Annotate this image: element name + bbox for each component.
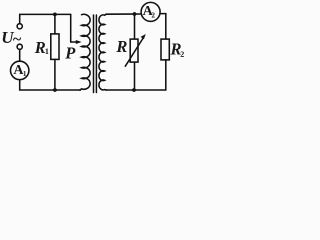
svg-text:2: 2 xyxy=(151,12,155,20)
svg-text:R: R xyxy=(115,37,127,56)
ammeter A2 xyxy=(141,2,160,21)
resistor R2 xyxy=(161,39,169,60)
ammeter A1 xyxy=(11,61,29,79)
svg-text:1: 1 xyxy=(45,47,49,56)
node junction R1 top xyxy=(53,13,57,17)
wire A2 to right corner xyxy=(160,14,166,39)
node junction rheostat bottom xyxy=(132,88,136,92)
terminal bottom-left xyxy=(17,44,22,49)
wire top-left horizontal xyxy=(20,14,71,23)
node junction R1 bottom xyxy=(53,88,57,92)
secondary coil xyxy=(99,14,106,90)
wire R2 bottom xyxy=(165,60,167,90)
wire R1 branch upper xyxy=(54,14,56,34)
terminal top-left xyxy=(17,24,22,29)
svg-text:P: P xyxy=(64,44,76,63)
wire tap drop xyxy=(70,14,72,42)
transformer core line 2 xyxy=(95,15,97,93)
svg-text:2: 2 xyxy=(180,50,184,59)
wire rheostat branch lower xyxy=(134,62,136,90)
svg-text:~: ~ xyxy=(13,31,22,48)
rheostat arrow xyxy=(125,38,143,67)
wire A1 to bottom rail xyxy=(20,80,81,90)
tap arrow P xyxy=(71,41,79,43)
transformer core line 1 xyxy=(93,15,95,93)
svg-text:1: 1 xyxy=(23,70,27,78)
node junction rheostat top xyxy=(133,12,137,16)
wire rheostat branch upper xyxy=(134,14,136,39)
primary coil xyxy=(80,14,90,90)
wire R1 branch lower xyxy=(54,59,56,90)
wire terminal to ammeter A1 xyxy=(19,49,21,61)
rheostat R box xyxy=(130,39,138,62)
wire bottom rail right xyxy=(106,89,166,91)
wire secondary top to A2 xyxy=(106,13,141,15)
resistor R1 xyxy=(51,34,59,60)
